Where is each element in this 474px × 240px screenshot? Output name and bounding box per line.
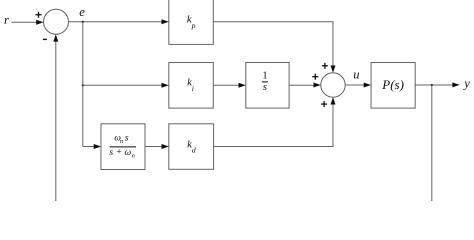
block plant P(s) [371,63,415,109]
wire branch to Ki [83,84,163,86]
svg-text:n: n [132,153,135,160]
svg-text:s: s [263,82,267,93]
wire branch vertical at node e [82,22,84,147]
arrowhead into Kp [162,19,169,24]
arrowhead into plant [364,83,371,88]
block Kd [169,124,214,170]
svg-text:P(s): P(s) [381,77,404,92]
label minus S1 [43,39,47,40]
svg-text:u: u [353,68,359,82]
arrowhead into S2 top [331,66,336,73]
arrowhead output y [452,82,459,87]
label plus S1 [36,14,42,15]
node e branch junction [82,21,84,23]
wire feedback drop right [431,85,433,201]
wire Kd output to S2 bottom [214,104,333,147]
svg-text:1: 1 [262,71,267,82]
wire feedback rise left to S1 [55,41,57,201]
svg-text:s: s [125,133,129,143]
arrowhead into S1 bottom [53,34,58,41]
block integrator 1/s [246,63,289,109]
svg-text:r: r [4,13,9,27]
svg-text:y: y [462,77,470,91]
label plus S2 left [312,76,318,77]
filter fraction bar [110,146,137,148]
summing junction S1 [44,9,69,34]
svg-text:n: n [120,138,123,145]
wire branch to filter [83,146,95,148]
svg-text:s: s [109,148,113,158]
block Ki [169,63,214,109]
node mid branch junction [82,84,84,86]
label plus S2 top [322,65,328,66]
node output feedback junction [431,84,433,86]
wire plant output to y [415,84,453,86]
wire integrator output to S2 [289,84,315,86]
wire Ki output to integrator [213,84,239,86]
block Kp [169,0,214,44]
block derivative filter [101,124,145,170]
arrowhead into integrator [239,83,246,88]
wire Kp output to S2 top [213,22,333,66]
wire S2 output u to plant [345,84,365,86]
label plus S2 bottom [321,103,327,104]
wire e from S1 to Kp [69,21,163,23]
svg-text:ω: ω [124,148,131,158]
arrowhead into filter [94,144,101,149]
summing junction S2 [321,73,345,97]
arrowhead into S1 [36,20,43,25]
arrowhead into S2 left [314,83,321,88]
wire filter output to Kd [145,146,163,148]
svg-text:+: + [116,148,121,158]
arrowhead into Kd [162,144,169,149]
arrowhead into S2 bottom [331,97,336,104]
svg-text:e: e [79,5,85,19]
wire r input [12,21,39,23]
arrowhead into Ki [162,83,169,88]
